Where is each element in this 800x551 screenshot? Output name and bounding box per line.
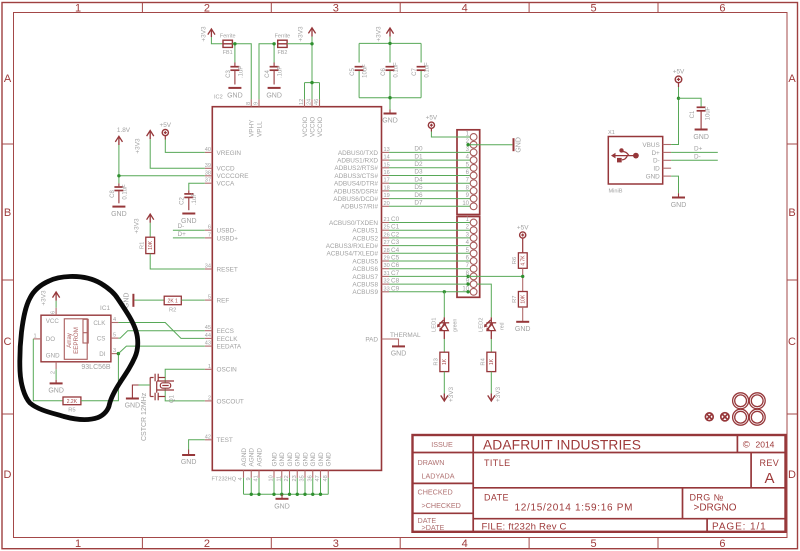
svg-text:15: 15 <box>384 162 390 168</box>
ground (IC1) <box>50 380 63 384</box>
svg-text:6: 6 <box>719 3 725 15</box>
ground (decoupling rail) <box>384 110 397 114</box>
svg-text:OSCOUT: OSCOUT <box>217 398 244 405</box>
resistor R7 <box>518 292 527 308</box>
svg-text:FB2: FB2 <box>277 50 287 56</box>
svg-text:GND: GND <box>671 202 687 209</box>
wire net C3 <box>389 245 470 247</box>
svg-text:GND: GND <box>266 93 282 100</box>
svg-text:>DRGNO: >DRGNO <box>694 503 737 514</box>
wire to C1 <box>679 98 702 106</box>
svg-text:©: © <box>743 440 750 451</box>
svg-text:ACBUS5: ACBUS5 <box>352 258 378 265</box>
svg-text:26: 26 <box>384 232 390 238</box>
wire +5V to JP1 pin1 <box>431 132 470 138</box>
USB connector X1 body <box>608 137 662 185</box>
svg-text:VPLL: VPLL <box>256 121 263 137</box>
svg-text:19: 19 <box>384 193 390 199</box>
svg-text:29: 29 <box>384 256 390 262</box>
X1 pin stubs <box>663 145 671 177</box>
svg-text:AGND: AGND <box>249 448 256 467</box>
svg-text:DATE: DATE <box>484 493 509 503</box>
mounting hole H2 <box>749 393 765 409</box>
svg-text:IC1: IC1 <box>100 305 110 312</box>
supply +5V (JP1 pin1) <box>428 122 434 131</box>
supply +3V3 arrow (C5 C6 C7) <box>386 28 393 37</box>
svg-text:A: A <box>764 470 774 487</box>
svg-text:VCC: VCC <box>46 318 60 325</box>
ground (C1) <box>695 129 708 131</box>
svg-text:17: 17 <box>384 178 390 184</box>
wire X1 GND pin to ground <box>671 176 678 193</box>
junction dots on ground bus <box>250 493 323 496</box>
svg-text:OSCIN: OSCIN <box>217 367 238 374</box>
wire net D3 <box>389 175 470 177</box>
ground (C3) <box>228 87 241 89</box>
svg-text:C7: C7 <box>412 68 418 76</box>
svg-text:1: 1 <box>75 538 81 550</box>
svg-text:0.1uF: 0.1uF <box>122 184 128 200</box>
svg-text:C0: C0 <box>391 216 400 223</box>
svg-text:6: 6 <box>719 538 725 550</box>
pin header JP2 <box>457 217 480 298</box>
svg-text:ACBUS9: ACBUS9 <box>352 289 378 296</box>
svg-text:GND: GND <box>391 351 407 358</box>
svg-text:27: 27 <box>384 240 390 246</box>
wire R6 to R7 <box>522 268 524 291</box>
svg-text:GND: GND <box>271 452 278 467</box>
svg-text:32: 32 <box>384 279 390 285</box>
svg-text:ACBUS8: ACBUS8 <box>352 282 378 289</box>
svg-text:VCCCORE: VCCCORE <box>217 173 249 180</box>
svg-text:1: 1 <box>34 333 37 339</box>
svg-text:6: 6 <box>208 225 211 231</box>
svg-text:C6: C6 <box>381 68 387 76</box>
svg-text:EEPROM: EEPROM <box>73 327 80 354</box>
svg-text:RESET: RESET <box>217 266 238 273</box>
svg-text:A: A <box>4 73 12 85</box>
svg-text:2: 2 <box>208 395 211 401</box>
svg-text:C8: C8 <box>110 190 116 198</box>
JP1 pin circles <box>470 134 477 210</box>
ground (JP1 pin2) rotated <box>513 138 515 151</box>
net labels C0-C9 <box>391 216 400 292</box>
LED LED1 <box>437 317 449 339</box>
svg-text:18: 18 <box>384 185 390 191</box>
svg-text:2: 2 <box>204 538 210 550</box>
svg-text:R4: R4 <box>480 357 486 365</box>
svg-text:ADBUS5/DSR#: ADBUS5/DSR# <box>334 188 379 195</box>
resistor R4 <box>487 352 496 371</box>
wire DO to R5 <box>33 339 63 401</box>
wire net D0 <box>389 151 470 153</box>
EEPROM IC1 body <box>41 315 111 362</box>
wire FB2 to +3V3/VCCIO <box>287 37 319 100</box>
capacitor C6 <box>386 67 395 71</box>
svg-text:C7: C7 <box>391 270 400 277</box>
svg-text:D+: D+ <box>178 231 187 238</box>
title block <box>413 435 786 532</box>
junction node VCCIO rail <box>310 81 313 84</box>
svg-text:ADBUS2/RTS#: ADBUS2/RTS# <box>334 165 378 172</box>
ferrite bead FB2 <box>278 40 287 47</box>
svg-text:D: D <box>788 469 796 481</box>
svg-text:38: 38 <box>205 170 211 176</box>
svg-text:24: 24 <box>307 99 313 105</box>
svg-text:GND: GND <box>693 134 709 141</box>
svg-text:1K: 1K <box>442 358 448 365</box>
junction node C9/LED1 <box>443 290 446 293</box>
svg-text:LED2: LED2 <box>478 317 484 332</box>
ground (THERMAL) <box>392 345 405 347</box>
svg-text:GND: GND <box>302 452 309 467</box>
wire +3V3 to FB1 <box>211 37 223 44</box>
ferrite bead FB1 <box>223 40 232 47</box>
svg-text:21: 21 <box>384 217 390 223</box>
svg-text:FT232HQ: FT232HQ <box>212 477 237 483</box>
svg-text:B: B <box>788 207 795 219</box>
ground (C2) <box>182 213 195 215</box>
svg-text:31: 31 <box>384 271 390 277</box>
IC1 inner array box <box>64 319 88 360</box>
mounting hole H4 <box>749 409 765 425</box>
fiducial M2 <box>721 413 729 421</box>
svg-text:5: 5 <box>208 295 211 301</box>
svg-text:TEST: TEST <box>217 437 233 444</box>
svg-text:43: 43 <box>205 341 211 347</box>
supply +5V (VREGIN) <box>162 130 168 140</box>
svg-text:DRG №: DRG № <box>690 493 724 503</box>
frame row labels <box>4 73 797 481</box>
supply +5V (R6) <box>520 232 526 253</box>
svg-text:GND: GND <box>646 174 661 181</box>
svg-text:1K: 1K <box>489 358 495 365</box>
svg-text:VCCIO: VCCIO <box>309 117 316 137</box>
wire net D4 <box>389 182 470 184</box>
JP2 pin numbers <box>462 217 469 292</box>
svg-text:VREGIN: VREGIN <box>217 150 242 157</box>
supply +3V3 down arrow (LED1) <box>441 394 448 402</box>
svg-text:+3V3: +3V3 <box>495 386 502 402</box>
svg-text:34: 34 <box>205 264 211 270</box>
svg-text:GND: GND <box>46 353 60 360</box>
wire R2 to REF <box>181 299 205 301</box>
junction nodes decoupling rail <box>388 42 391 45</box>
svg-text:PAD: PAD <box>365 336 378 343</box>
svg-text:C1: C1 <box>690 110 696 118</box>
svg-text:GND: GND <box>287 452 294 467</box>
svg-text:5: 5 <box>590 3 596 15</box>
svg-text:+3V3: +3V3 <box>376 26 383 42</box>
supply +3V3 arrow (VCCD) <box>147 131 154 140</box>
svg-text:VCCD: VCCD <box>217 166 235 173</box>
svg-text:2: 2 <box>204 3 210 15</box>
resistor R3 <box>440 352 449 371</box>
svg-text:R6: R6 <box>512 257 518 264</box>
wire net D+ (USB) <box>671 151 718 153</box>
IC2 bottom pin names <box>241 448 333 467</box>
svg-text:GND: GND <box>227 93 243 100</box>
pin header JP1 <box>457 130 480 215</box>
wire R4 to +3V3 <box>490 372 492 394</box>
svg-text:TITLE: TITLE <box>484 458 511 468</box>
net labels D0-D7 <box>414 146 423 207</box>
IC2 left pin names <box>217 150 249 444</box>
svg-text:0.1uF: 0.1uF <box>425 62 431 78</box>
svg-text:4: 4 <box>462 538 468 550</box>
wire R5 to DI junction <box>81 354 119 401</box>
wire net D1 <box>389 159 470 161</box>
IC1 pin names <box>46 318 106 360</box>
svg-text:GND: GND <box>382 118 398 125</box>
svg-text:D-: D- <box>178 223 185 230</box>
svg-text:10uF: 10uF <box>706 106 712 120</box>
svg-text:ACBUS2: ACBUS2 <box>352 235 378 242</box>
wire net D- (USB) <box>671 159 718 161</box>
svg-text:R7: R7 <box>512 295 518 302</box>
wire net C5 <box>389 260 470 262</box>
ground (TEST) <box>182 450 195 456</box>
op-amp/IC U-FT232H IC2 body <box>212 107 381 471</box>
svg-text:R1: R1 <box>139 242 145 249</box>
X1 USB logo <box>611 148 639 162</box>
svg-text:Ferrite: Ferrite <box>275 34 291 40</box>
wire +3V3 to R1 <box>149 223 151 237</box>
svg-text:Array: Array <box>66 332 73 348</box>
IC2 right pin stubs <box>382 152 390 291</box>
svg-text:D+: D+ <box>694 145 703 152</box>
svg-text:ADBUS0/TXD: ADBUS0/TXD <box>338 150 379 157</box>
svg-text:D+: D+ <box>651 150 660 157</box>
svg-text:C4: C4 <box>265 70 271 78</box>
svg-text:VBUS: VBUS <box>642 142 659 149</box>
wire LED1 to R3 <box>443 339 445 352</box>
supply 1.8V arrow <box>115 136 122 145</box>
svg-text:red: red <box>499 322 505 330</box>
capacitor C4 <box>270 63 279 85</box>
svg-text:MiniB: MiniB <box>609 189 623 195</box>
svg-text:D6: D6 <box>414 192 423 199</box>
IC2 right pin numbers <box>384 147 390 292</box>
svg-text:1.8V: 1.8V <box>117 127 131 134</box>
svg-text:ID: ID <box>653 166 660 173</box>
svg-text:16: 16 <box>384 170 390 176</box>
svg-text:+5V: +5V <box>517 225 529 232</box>
wire net D5 <box>389 190 470 192</box>
svg-text:PAGE: 1/1: PAGE: 1/1 <box>712 522 767 533</box>
svg-text:C: C <box>4 336 12 348</box>
capacitor C2 <box>184 190 193 210</box>
svg-text:D3: D3 <box>414 169 423 176</box>
svg-text:2.2K: 2.2K <box>67 399 78 405</box>
svg-text:GND: GND <box>295 452 302 467</box>
svg-text:+3V3: +3V3 <box>448 386 455 402</box>
svg-text:ACBUS0/TXDEN: ACBUS0/TXDEN <box>329 220 378 227</box>
junction node C8 <box>117 174 120 177</box>
svg-text:Ferrite: Ferrite <box>220 34 236 40</box>
wire net D2 <box>389 167 470 169</box>
wire +3V3 to VCCD <box>150 139 205 168</box>
svg-text:CHECKED: CHECKED <box>418 488 453 497</box>
svg-text:45: 45 <box>205 325 211 331</box>
svg-text:4: 4 <box>462 3 468 15</box>
svg-text:GND: GND <box>125 403 141 410</box>
ground (X1) <box>672 193 685 197</box>
resistor R5 <box>63 397 81 405</box>
svg-text:5: 5 <box>113 333 116 339</box>
wire JP2 pin9 to LED2 <box>477 284 491 317</box>
wire IC1 GND pin <box>55 369 57 380</box>
svg-text:B: B <box>4 207 11 219</box>
svg-text:GND: GND <box>516 137 523 153</box>
svg-text:green: green <box>452 319 458 332</box>
svg-text:25: 25 <box>384 225 390 231</box>
supply +3V3 arrow (VCCIO) <box>308 28 315 37</box>
junction node R6/R7 <box>521 275 524 278</box>
wire net D+ to USBD+ <box>173 237 205 239</box>
svg-text:ACBUS6: ACBUS6 <box>352 266 378 273</box>
svg-text:R2: R2 <box>169 308 176 314</box>
wire +5V to VREGIN <box>165 140 205 153</box>
IC2 left pin numbers <box>205 147 211 440</box>
junction node JP2 pin9 <box>466 282 469 285</box>
svg-text:8: 8 <box>246 102 252 105</box>
junction node JP2 pin8 <box>466 275 469 278</box>
wire VPLL branch <box>259 44 274 99</box>
supply +3V3 arrow (R1) <box>147 214 154 223</box>
svg-text:C2: C2 <box>180 197 186 205</box>
svg-text:Q1: Q1 <box>170 394 176 403</box>
svg-text:3: 3 <box>333 3 339 15</box>
svg-text:ADBUS4/DTR#: ADBUS4/DTR# <box>334 181 378 188</box>
svg-text:D-: D- <box>653 158 660 165</box>
svg-text:D1: D1 <box>414 153 423 160</box>
mounting hole H1 <box>733 393 749 409</box>
svg-text:R5: R5 <box>68 407 75 413</box>
wire FB1 to VPHY <box>232 44 251 99</box>
svg-text:12/15/2014 1:59:16 PM: 12/15/2014 1:59:16 PM <box>515 503 634 514</box>
svg-text:30: 30 <box>384 263 390 269</box>
svg-text:GND: GND <box>310 452 317 467</box>
resonator Q1 <box>150 374 174 401</box>
junction node JP2 pin10 <box>466 290 469 293</box>
resistor R1 <box>146 237 155 253</box>
svg-text:1: 1 <box>208 364 211 370</box>
ground (C4) <box>268 87 281 89</box>
wire PAD to ground <box>382 339 399 346</box>
junction node FB1/C3 <box>233 42 236 45</box>
svg-text:LED1: LED1 <box>431 317 437 332</box>
svg-text:ADBUS7/RI#: ADBUS7/RI# <box>341 204 379 211</box>
ground (Q1) <box>126 398 139 400</box>
wire net C4 <box>389 252 470 254</box>
svg-text:C5: C5 <box>391 255 400 262</box>
IC2 top pin stubs VPHY VPLL VCCIO <box>251 99 319 107</box>
svg-text:ACBUS3/RXLED#: ACBUS3/RXLED# <box>326 243 379 250</box>
ground (C8) <box>112 206 125 208</box>
svg-text:VCCIO: VCCIO <box>302 117 309 137</box>
wire Q1 to ground <box>132 385 138 398</box>
wire net C9 <box>389 291 470 293</box>
junction node C1 tap <box>677 97 680 100</box>
wire GND to R2 <box>135 299 165 301</box>
svg-text:IC2: IC2 <box>214 95 223 101</box>
wire R3 to +3V3 <box>443 372 445 394</box>
svg-text:FB1: FB1 <box>223 50 233 56</box>
svg-text:DRAWN: DRAWN <box>418 458 445 467</box>
svg-text:3: 3 <box>333 538 339 550</box>
svg-text:C3: C3 <box>226 70 232 78</box>
wire +5V to VBUS <box>671 87 678 145</box>
svg-text:1: 1 <box>75 3 81 15</box>
svg-text:AGND: AGND <box>256 448 263 467</box>
svg-text:GND: GND <box>515 326 531 333</box>
svg-text:ADBUS6/DCD#: ADBUS6/DCD# <box>333 196 378 203</box>
svg-text:5: 5 <box>590 538 596 550</box>
svg-text:GND: GND <box>326 452 333 467</box>
svg-text:USBD+: USBD+ <box>217 235 239 242</box>
wire net D7 <box>389 205 470 207</box>
svg-text:.1uF: .1uF <box>238 66 244 78</box>
svg-text:GND: GND <box>318 452 325 467</box>
title block texts <box>418 440 461 532</box>
IC2 bottom pin stubs AGND GND <box>244 470 329 478</box>
svg-text:+3V3: +3V3 <box>298 26 305 42</box>
wire JP2 pin8 to R6/R7 <box>468 275 523 277</box>
wire 1.8V to VCCCORE <box>119 145 205 183</box>
capacitor C1 <box>697 107 706 129</box>
svg-text:ADAFRUIT INDUSTRIES: ADAFRUIT INDUSTRIES <box>483 438 641 453</box>
svg-text:ADBUS3/CTS#: ADBUS3/CTS# <box>334 173 378 180</box>
wire R7 to ground <box>522 307 524 322</box>
svg-text:FILE: ft232h Rev C: FILE: ft232h Rev C <box>482 522 567 533</box>
svg-text:D2: D2 <box>414 161 423 168</box>
svg-text:0.1uF: 0.1uF <box>393 62 399 78</box>
supply +3V3 arrow (FB1) <box>208 29 215 37</box>
IC2 left pin stubs <box>205 152 213 439</box>
svg-text:10K: 10K <box>148 240 154 250</box>
svg-text:GND: GND <box>48 388 64 395</box>
wire net C6 <box>389 268 470 270</box>
svg-text:14: 14 <box>384 155 390 161</box>
wire net C0 <box>389 222 470 224</box>
svg-text:ADBUS1/RXD: ADBUS1/RXD <box>337 158 378 165</box>
supply +3V3 arrow (IC1 VCC) <box>53 292 60 301</box>
wire R1 to RESET <box>150 254 205 269</box>
svg-text:+3V3: +3V3 <box>135 138 142 154</box>
svg-text:37: 37 <box>205 178 211 184</box>
svg-text:D-: D- <box>694 153 701 160</box>
supply +3V3 down arrow (LED2) <box>488 394 495 402</box>
wire JP1 pin2 to ground <box>468 144 512 146</box>
svg-text:44: 44 <box>205 333 211 339</box>
svg-text:33: 33 <box>384 286 390 292</box>
svg-text:REF: REF <box>217 298 230 305</box>
svg-text:VPHY: VPHY <box>249 119 256 137</box>
capacitor C5 <box>355 67 364 71</box>
svg-text:>CHECKED: >CHECKED <box>422 501 461 510</box>
svg-text:ACBUS1: ACBUS1 <box>352 228 378 235</box>
svg-text:10uF: 10uF <box>363 64 369 78</box>
junction node DI <box>117 352 120 355</box>
capacitor C8 <box>114 183 123 203</box>
svg-text:GND: GND <box>181 459 197 466</box>
wire ground bus under IC2 <box>244 478 329 494</box>
svg-text:>DATE: >DATE <box>422 523 445 532</box>
svg-text:C2: C2 <box>391 231 400 238</box>
svg-text:46: 46 <box>314 99 320 105</box>
svg-text:GND: GND <box>111 211 127 218</box>
